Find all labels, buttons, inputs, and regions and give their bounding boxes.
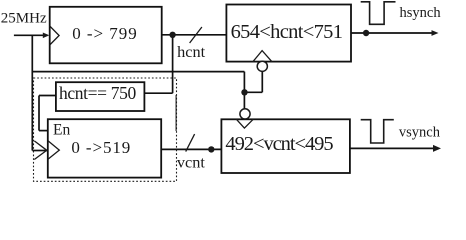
svg-text:654<hcnt<751: 654<hcnt<751 <box>231 21 343 43</box>
svg-text:hsynch: hsynch <box>400 5 442 21</box>
svg-text:hcnt== 750: hcnt== 750 <box>59 83 136 103</box>
svg-text:492<vcnt<495: 492<vcnt<495 <box>225 133 333 155</box>
svg-text:vcnt: vcnt <box>177 153 206 172</box>
svg-text:25MHz: 25MHz <box>1 11 47 27</box>
svg-text:0 ->519: 0 ->519 <box>71 138 130 157</box>
svg-text:0 -> 799: 0 -> 799 <box>72 24 137 43</box>
svg-text:vsynch: vsynch <box>399 124 441 140</box>
svg-text:hcnt: hcnt <box>177 42 206 61</box>
svg-text:En: En <box>53 122 70 139</box>
